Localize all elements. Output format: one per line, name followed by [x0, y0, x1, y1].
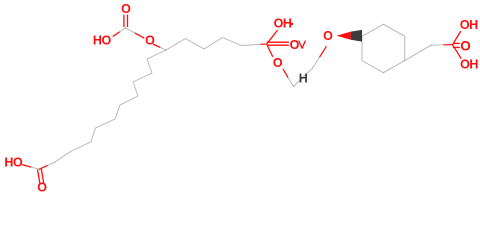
wire C-OH (top) bond of D — [453, 32, 461, 45]
wire CH2 to D bond — [431, 44, 444, 46]
wire X-O(bottom) bond — [267, 45, 272, 56]
wedge bond O to ring C1 (red half) — [337, 32, 351, 40]
cyclohexane ring — [362, 24, 405, 72]
wire C-OH bond of A — [119, 28, 125, 32]
svg-text:O: O — [145, 33, 155, 47]
wire C-O ester bond of A — [126, 28, 136, 33]
svg-text:O: O — [121, 2, 131, 16]
svg-text:OH: OH — [274, 17, 292, 31]
minus charge mark of B top label — [291, 23, 293, 25]
wire ester O to chain C* bond — [154, 44, 160, 47]
wire X=O double bond (right, horizontal) — [267, 41, 288, 43]
svg-text:H: H — [299, 71, 308, 85]
wire small v strokes right of B label — [299, 41, 305, 48]
wedge bond black half — [351, 30, 362, 42]
wire chain up to ether O — [294, 68, 313, 86]
wire C=O double bond (right) of D — [454, 42, 460, 44]
svg-text:O: O — [460, 38, 470, 53]
wire X-OH(top) bond — [267, 31, 277, 44]
wire chain C* to group B — [166, 38, 261, 51]
wire chain from B bottom O downward — [283, 69, 288, 77]
wire C=O double bond of E — [38, 170, 40, 184]
svg-text:HO: HO — [93, 33, 112, 47]
wire C=O double bond of A — [123, 15, 125, 26]
svg-text:O: O — [37, 181, 47, 195]
svg-text:OH: OH — [460, 18, 478, 32]
svg-text:HO: HO — [4, 156, 23, 170]
wire HO-C bond of E — [23, 165, 31, 167]
wire ring to CH2 bond — [405, 45, 431, 60]
svg-text:O: O — [273, 56, 283, 70]
wire E chain-out bond — [39, 166, 47, 170]
wire long aliphatic chain E to C* (zigzag) — [55, 50, 166, 162]
svg-text:O: O — [290, 38, 300, 52]
svg-text:O: O — [323, 29, 333, 43]
wire C-OH (bottom) bond of D — [453, 45, 462, 59]
svg-text:OH: OH — [460, 58, 478, 72]
